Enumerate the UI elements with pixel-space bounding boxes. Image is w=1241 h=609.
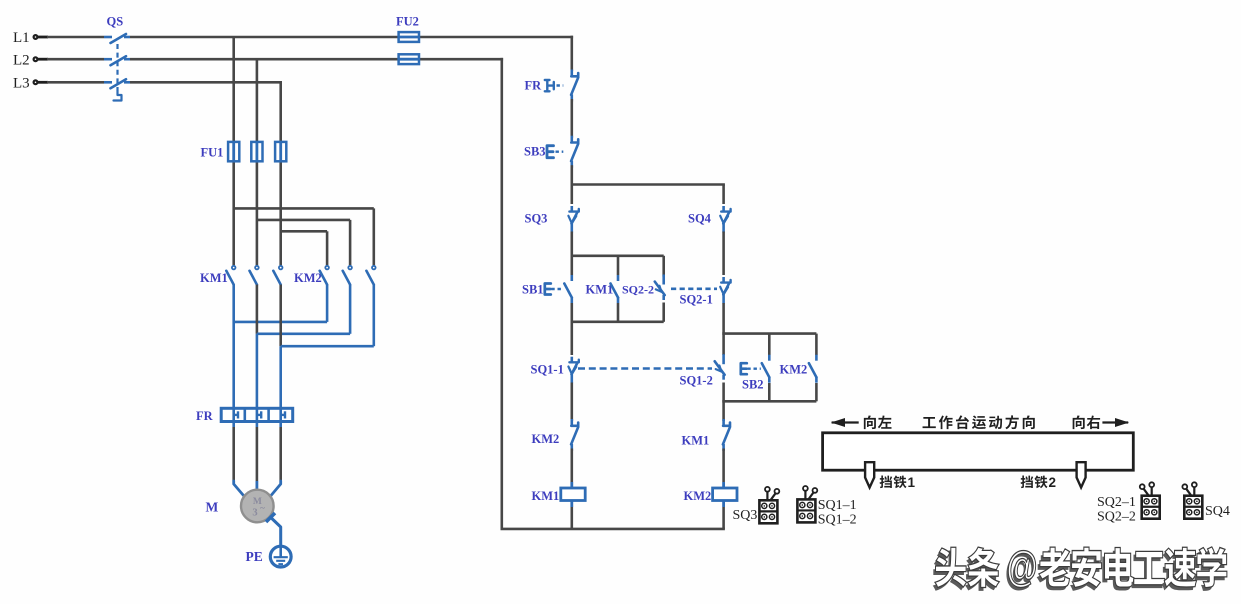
node L1 terminal	[13, 30, 48, 46]
limit switch SQ4 (NO)	[688, 206, 731, 232]
svg-text:FU1: FU1	[201, 146, 224, 160]
svg-text:KM1: KM1	[200, 271, 228, 285]
svg-text:SQ2-1: SQ2-1	[680, 293, 713, 307]
wire	[570, 99, 573, 138]
svg-text:SB3: SB3	[524, 145, 546, 159]
wire L3	[47, 81, 282, 84]
pushbutton SB3 (NC stop)	[524, 136, 578, 168]
wire SB2 parallel box	[722, 334, 816, 402]
svg-text:FR: FR	[525, 79, 543, 93]
svg-text:SQ1–1: SQ1–1	[818, 498, 857, 513]
svg-text:KM2: KM2	[684, 489, 712, 503]
svg-text:QS: QS	[107, 15, 124, 29]
wire KM1 pole1 output	[232, 285, 235, 409]
svg-text:PE: PE	[246, 549, 263, 564]
svg-text:KM1: KM1	[586, 283, 614, 297]
wire SB1 parallel box	[571, 256, 664, 322]
svg-text:L2: L2	[13, 52, 30, 68]
ground PE	[246, 513, 292, 567]
wire bottom rail	[501, 528, 725, 531]
svg-text:SQ2-2: SQ2-2	[622, 283, 654, 297]
wire	[722, 507, 725, 529]
wire L2 drop	[256, 59, 259, 265]
wire	[722, 303, 725, 355]
wire FR to motor U	[234, 421, 244, 495]
svg-text:SQ1–2: SQ1–2	[818, 513, 857, 528]
mechanical link SQ2-2 to SQ2-1	[671, 287, 717, 290]
wire KM1 pole3 output	[279, 285, 282, 409]
svg-text:~: ~	[260, 503, 265, 513]
svg-text:3: 3	[252, 508, 257, 519]
node L2 terminal	[13, 52, 48, 68]
wire	[722, 449, 725, 483]
svg-text:SQ1-2: SQ1-2	[680, 374, 713, 388]
wire KM2 pole2 output merge	[257, 285, 350, 334]
coil KM2	[684, 482, 738, 507]
contact KM1 aux (NO self-hold)	[586, 275, 619, 303]
svg-text:M: M	[206, 500, 219, 515]
wire	[570, 507, 573, 529]
wire	[570, 165, 573, 204]
svg-text:FR: FR	[196, 409, 214, 423]
limit switch SQ2-2 (NC)	[622, 275, 665, 301]
stop dog 1 (挡铁1)	[865, 462, 915, 490]
wire	[570, 383, 573, 422]
node L3 terminal	[13, 76, 48, 92]
svg-text:@: @	[1007, 543, 1038, 591]
limit switch SQ3 (NO)	[525, 206, 579, 232]
wire rail to SQ4 branch	[571, 185, 725, 205]
svg-text:SQ1-1: SQ1-1	[531, 363, 564, 377]
limit switch SQ2-1 (NO)	[680, 277, 731, 307]
svg-text:KM2: KM2	[294, 271, 322, 285]
svg-text:1: 1	[908, 475, 916, 490]
pushbutton SB2 (NO start-right)	[741, 355, 770, 392]
fuse FU2	[396, 15, 419, 65]
limit switch SQ2 physical	[1097, 482, 1160, 524]
limit switch SQ1-1 (NO)	[531, 357, 579, 383]
contactor KM2 main contacts	[294, 266, 376, 285]
motor M 3~	[206, 490, 274, 523]
wire	[570, 303, 573, 355]
fuse FU1	[201, 142, 287, 161]
svg-text:SQ2–2: SQ2–2	[1097, 510, 1136, 525]
contactor KM1 main contacts	[200, 266, 283, 285]
wire	[722, 232, 725, 276]
wire FR to motor W	[271, 421, 281, 495]
wire control return from FU2-L2	[500, 58, 503, 529]
worktable body	[823, 433, 1134, 470]
svg-text:KM2: KM2	[780, 363, 808, 377]
svg-text:SQ2–1: SQ2–1	[1097, 495, 1136, 510]
svg-text:SB1: SB1	[522, 283, 544, 297]
wire crossover L2 to KM2 middle pole	[257, 220, 350, 265]
svg-text:SQ3: SQ3	[525, 212, 548, 226]
svg-text:SQ4: SQ4	[688, 212, 712, 226]
limit switch SQ1-2 (NC)	[680, 354, 725, 387]
coil KM1	[532, 482, 586, 507]
svg-text:L3: L3	[13, 76, 30, 92]
mechanical link SQ1-1 to SQ1-2	[578, 367, 712, 370]
wire control phase from FU2-L1	[570, 36, 573, 71]
thermal overload FR heaters	[196, 408, 293, 423]
contact FR (NC thermal relay contact)	[525, 70, 579, 102]
svg-text:FU2: FU2	[396, 15, 419, 29]
wire L3 drop	[279, 82, 282, 265]
wire crossover L3 to KM2 left pole	[281, 231, 327, 265]
switch QS	[104, 15, 130, 101]
stop dog 2 (挡铁2)	[1021, 462, 1086, 490]
worktable direction arrows and caption	[831, 415, 1129, 429]
watermark 头条@老安电工速学	[933, 543, 1227, 594]
contact KM1 interlock (NC)	[682, 419, 731, 451]
wire crossover L1 to KM2 right pole	[234, 208, 374, 265]
svg-text:SQ3: SQ3	[733, 508, 758, 523]
wire L2	[47, 58, 503, 61]
svg-text:SQ4: SQ4	[1205, 504, 1230, 519]
svg-text:KM1: KM1	[532, 489, 560, 503]
wire KM2 pole1 output merge	[234, 285, 327, 322]
contact KM2 interlock (NC)	[532, 419, 579, 451]
svg-text:2: 2	[1049, 475, 1057, 490]
wire KM1 pole2 output	[256, 285, 259, 409]
svg-text:KM1: KM1	[682, 434, 710, 448]
wire L1	[47, 36, 573, 39]
wire	[722, 383, 725, 422]
wire L1 drop	[232, 37, 235, 265]
svg-text:KM2: KM2	[532, 432, 560, 446]
pushbutton SB1 (NO start-left)	[522, 275, 572, 303]
limit switch SQ4 physical	[1182, 482, 1230, 519]
wire FR to motor V	[256, 421, 259, 491]
svg-text:SB2: SB2	[742, 378, 764, 392]
wire KM2 pole3 output merge	[281, 285, 374, 347]
limit switch SQ1 physical	[797, 486, 856, 528]
svg-text:L1: L1	[13, 30, 30, 46]
limit switch SQ3 physical	[733, 487, 780, 523]
wire	[570, 232, 573, 276]
wire	[570, 449, 573, 483]
contact KM2 aux (NO self-hold)	[780, 355, 817, 383]
